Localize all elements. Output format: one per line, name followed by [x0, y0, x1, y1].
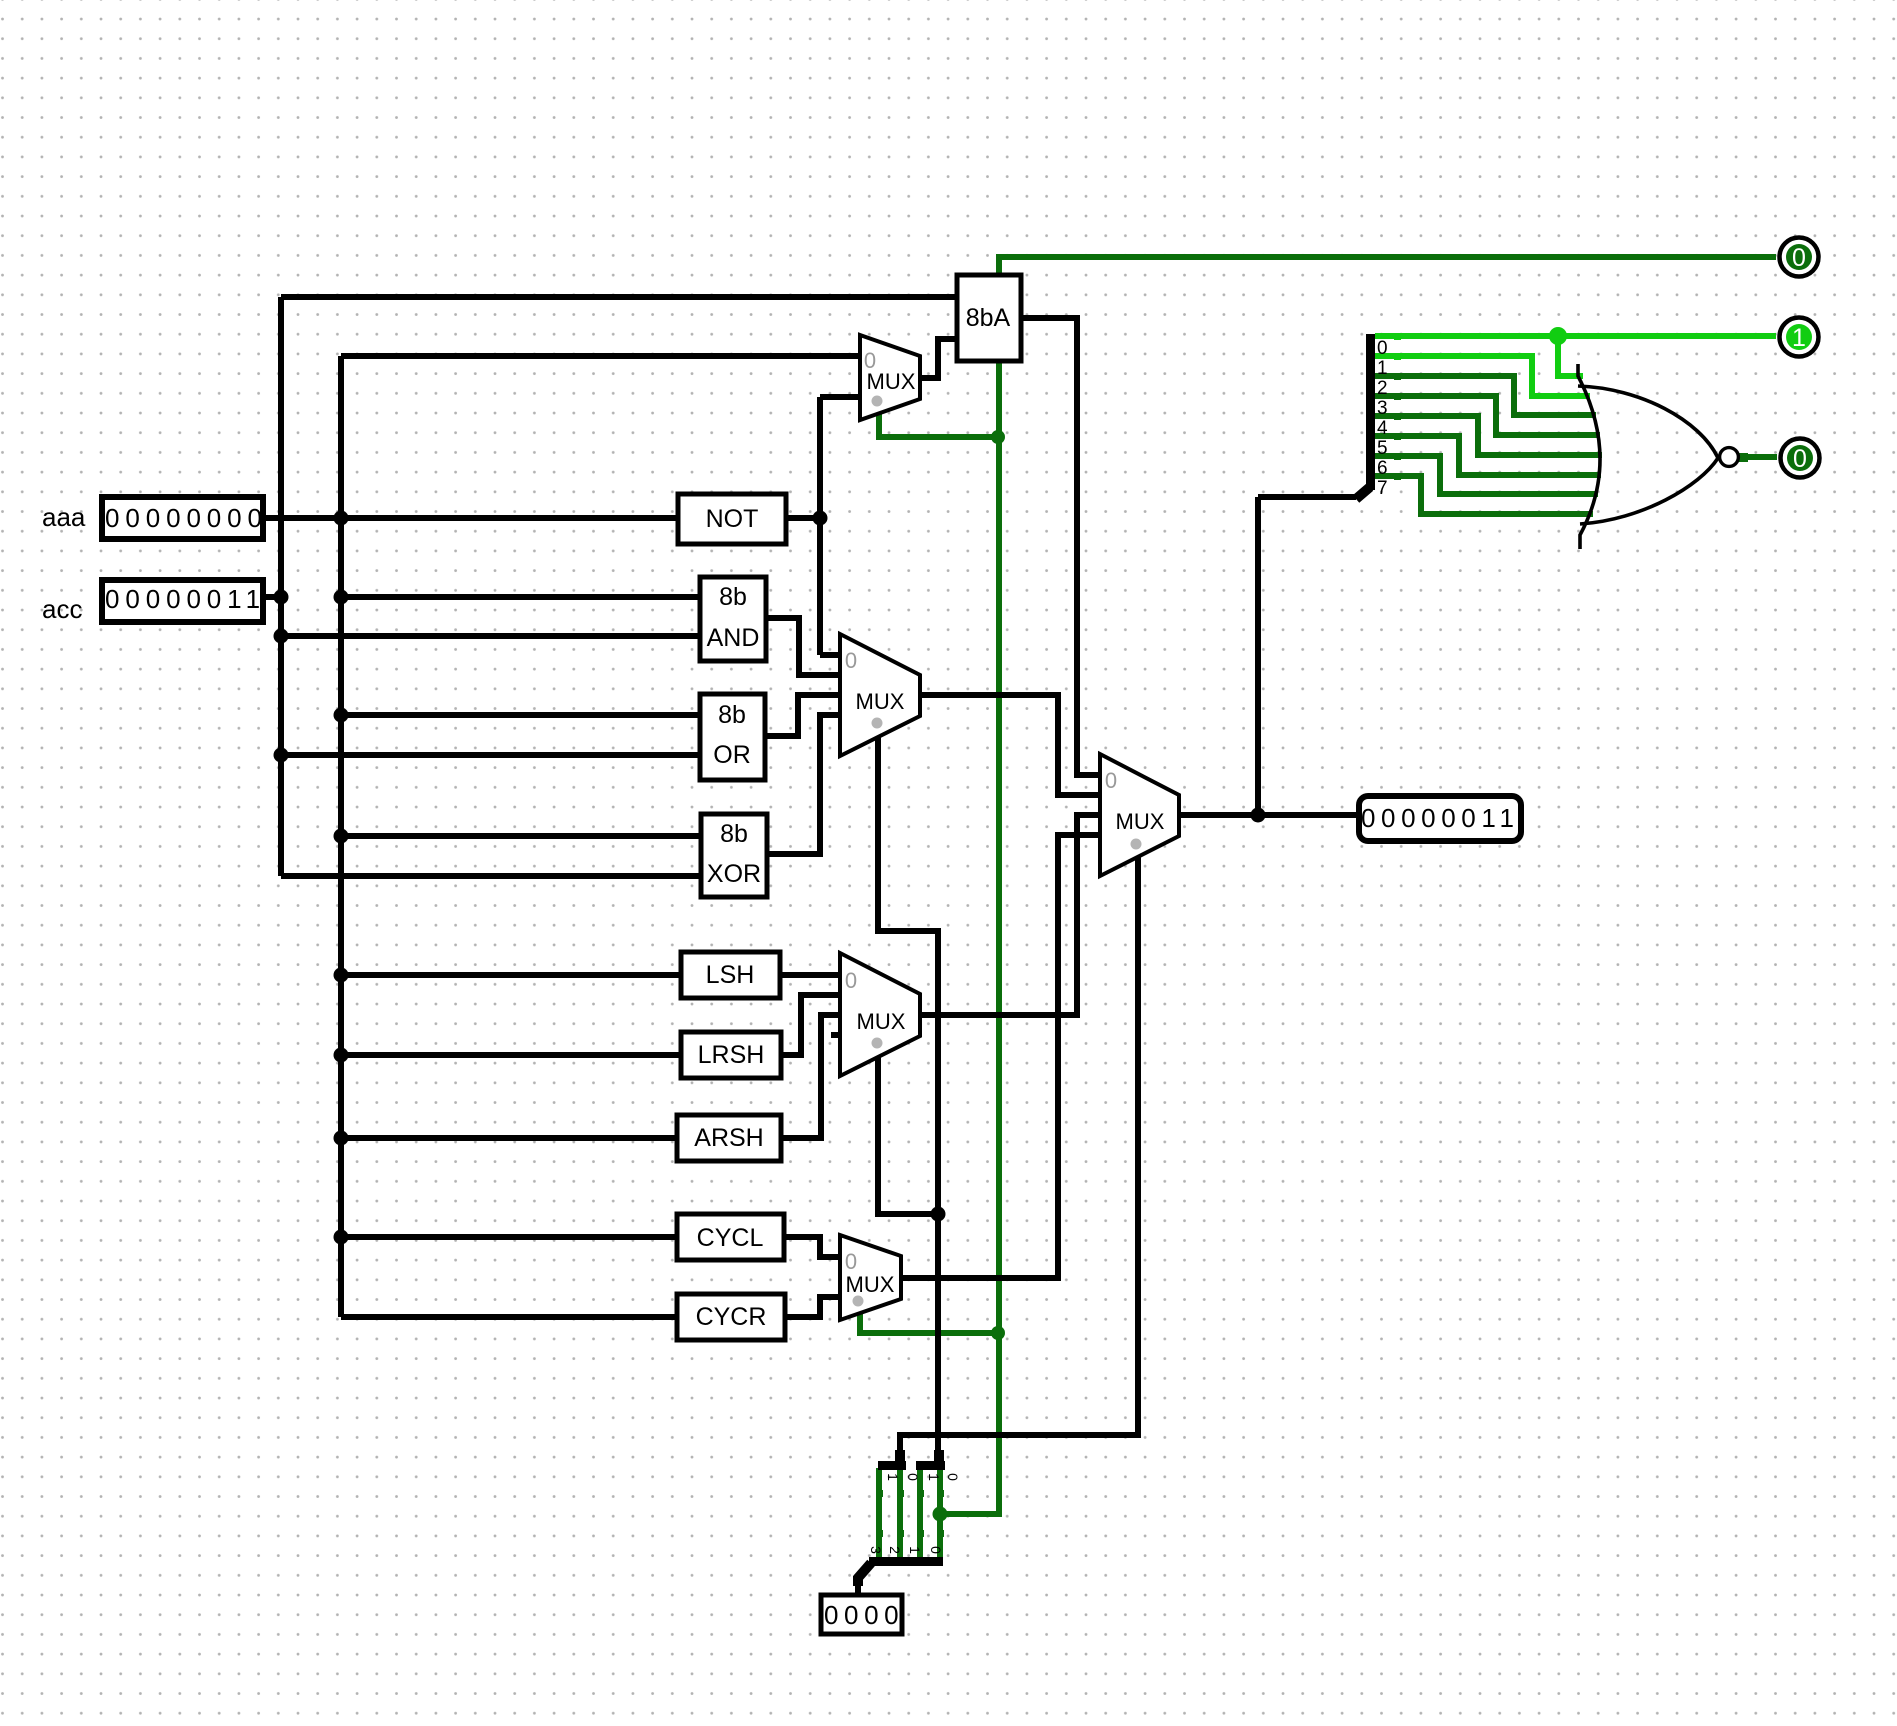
splitter 4-bit input stub: [853, 1576, 863, 1586]
junction MUX4 select green: [991, 1326, 1005, 1340]
svg-text:8b: 8b: [718, 701, 746, 729]
svg-text:OR: OR: [713, 741, 751, 769]
wire MUX1 select: [879, 408, 998, 437]
input register acc: [102, 580, 263, 622]
svg-text:XOR: XOR: [707, 860, 761, 888]
wire acc bus vertical x281: [278, 297, 284, 876]
wire MUX1 output to 8bA in2: [918, 339, 957, 378]
svg-text:2: 2: [1377, 378, 1388, 399]
svg-text:0000: 0000: [824, 1600, 904, 1630]
wire out bit2 to NOR in2: [1375, 376, 1596, 415]
svg-text:0: 0: [845, 968, 857, 993]
svg-text:LSH: LSH: [706, 961, 755, 989]
wire NOT to MUX2 in0: [820, 652, 840, 658]
wire CYCL input row: [341, 1234, 679, 1240]
splitter A bar: [878, 1461, 906, 1470]
splitter B input riser: [934, 1450, 944, 1462]
svg-text:MUX: MUX: [846, 1272, 895, 1297]
gate 8b AND: [700, 577, 766, 661]
gate NOT: [678, 494, 786, 544]
gate NOR bottom curve: [1580, 458, 1718, 524]
wire OR output elbow: [763, 695, 840, 736]
wire LRSH output elbow: [779, 995, 840, 1055]
wire MUX5 select: [900, 852, 1138, 1452]
wire MUX4 output to MUX5 in3: [899, 835, 1100, 1278]
output LED O1 (value 0) fill: [1786, 244, 1812, 270]
splitter A input riser: [895, 1450, 905, 1462]
node nub bit1: [1394, 353, 1401, 360]
block CYCL: [677, 1214, 784, 1260]
wire AND in2 row: [281, 633, 702, 639]
wire input splitter pin: [855, 1585, 861, 1597]
node nub select line: [937, 1530, 944, 1537]
node nub select line: [917, 1530, 924, 1537]
multiplexer MUX5: [1100, 754, 1179, 876]
svg-text:MUX: MUX: [857, 1009, 906, 1034]
wire out bit4 to NOR in4: [1375, 416, 1602, 455]
svg-text:6: 6: [1377, 458, 1388, 479]
wire MUX3 output to MUX5 in2: [918, 815, 1100, 1015]
wire out bit5 to NOR in5: [1375, 436, 1601, 475]
junction NOT output: [813, 511, 828, 526]
gate 8b XOR: [701, 814, 767, 897]
gate NOR back edge: [1578, 364, 1600, 549]
wire MUX2 select chain: [878, 730, 938, 1452]
svg-text:0: 0: [928, 1546, 944, 1554]
wire out bit3 to NOR in3: [1375, 396, 1600, 435]
wire XOR in2 row: [281, 873, 703, 879]
wire aaa bus vertical x341: [338, 356, 344, 1317]
multiplexer MUX3: [840, 953, 920, 1076]
wire ARSH output elbow: [779, 1015, 840, 1138]
block ARSH: [677, 1115, 781, 1161]
multiplexer MUX3 select indicator: [872, 1038, 883, 1049]
wire NOT net vertical x820: [817, 397, 823, 655]
block CYCR: [677, 1294, 785, 1340]
output LED O2 (value 1) ring: [1780, 318, 1819, 357]
junction XOR in1: [334, 829, 349, 844]
wire 8bA top pin to LED0 run: [999, 257, 1776, 288]
wire splitter bit s3 vertical: [876, 1468, 882, 1560]
wire out bit7 to NOR in7: [1375, 476, 1593, 514]
junction aaa-NOT row: [334, 511, 349, 526]
node nub bit7: [1394, 473, 1401, 480]
splitter 4-bit diagonal: [857, 1563, 871, 1579]
input 0000: [821, 1595, 902, 1634]
wire XOR output elbow: [765, 715, 840, 854]
wire acc bus top row to 8bA in1: [281, 294, 957, 300]
gate NOR top curve: [1578, 386, 1718, 458]
wire MUX4 select: [860, 1307, 998, 1333]
wire XOR in1 row: [341, 833, 703, 839]
wire OR in1 row: [341, 712, 702, 718]
wire splitter bit s1 vertical: [917, 1468, 923, 1560]
wire NOT output: [784, 515, 820, 521]
junction OR in2: [274, 748, 289, 763]
svg-text:0: 0: [1792, 244, 1806, 272]
wire aaa register to NOT input: [258, 515, 678, 521]
wire CYCR output elbow: [783, 1297, 840, 1317]
wire splitter bit s0 vertical: [937, 1468, 943, 1560]
junction select chain: [931, 1207, 946, 1222]
svg-text:1: 1: [885, 1473, 901, 1481]
svg-text:0: 0: [1377, 338, 1388, 359]
wire 8bA bottom pin vertical net: [941, 348, 999, 1514]
multiplexer MUX5 select indicator: [1131, 839, 1142, 850]
wire MUX5 output to out register: [1177, 812, 1360, 818]
splitter 4-bit bar: [869, 1557, 943, 1566]
junction acc stub: [274, 590, 289, 605]
svg-text:ARSH: ARSH: [694, 1124, 763, 1152]
wire result to splitter vertical: [1255, 497, 1261, 815]
node nub bit5: [1394, 433, 1401, 440]
node nub NOR out: [1739, 453, 1748, 462]
wire ARSH input row: [341, 1135, 679, 1141]
splitter 8-bit input diagonal: [1356, 487, 1370, 499]
output LED O1 (value 0) ring: [1780, 238, 1819, 277]
wire NOR output to LED2: [1738, 454, 1777, 460]
op-amp-shape MUX1 (multiplexer U1): [860, 335, 920, 420]
svg-text:CYCR: CYCR: [696, 1303, 767, 1331]
op-amp-shape MUX1 (multiplexer U1) select indicator: [872, 396, 883, 407]
multiplexer MUX4 select indicator: [853, 1296, 864, 1307]
node nub bit2: [1394, 373, 1401, 380]
junction LSH row: [334, 968, 349, 983]
junction MUX1 select green: [991, 430, 1005, 444]
output LED O3 (NOR result 0) ring: [1781, 439, 1820, 478]
node nub select line: [897, 1490, 904, 1497]
gate NOR bubble: [1720, 448, 1739, 467]
svg-text:7: 7: [1377, 478, 1388, 499]
node nub select line: [917, 1490, 924, 1497]
svg-text:0: 0: [845, 648, 857, 673]
multiplexer MUX2: [840, 634, 920, 756]
output register value: [1359, 796, 1521, 841]
wire MUX3 in3 stub: [831, 1032, 842, 1038]
wire CYCR input row: [341, 1314, 679, 1320]
wire splitter bit s2 vertical: [897, 1468, 903, 1560]
wire AND in1 row: [341, 594, 702, 600]
svg-text:MUX: MUX: [1116, 809, 1165, 834]
node nub select line: [897, 1530, 904, 1537]
node nub select line: [876, 1490, 883, 1497]
wire CYCL output elbow: [782, 1237, 840, 1257]
wire LSH output to MUX3 in0: [778, 972, 840, 978]
node nub select line: [876, 1530, 883, 1537]
output LED O3 (NOR result 0) fill: [1787, 445, 1813, 471]
svg-text:00000011: 00000011: [1361, 803, 1520, 833]
svg-text:acc: acc: [42, 594, 82, 624]
wire acc register stub: [258, 594, 281, 600]
multiplexer MUX4: [840, 1235, 901, 1320]
wire out bit0 bright to LED1: [1375, 333, 1776, 339]
wire MUX3 select: [878, 1053, 938, 1214]
junction CYCL row: [334, 1230, 349, 1245]
svg-text:CYCL: CYCL: [697, 1224, 764, 1252]
wire OR in2 row: [281, 752, 702, 758]
wire 8bA output to MUX5 in0: [1019, 318, 1100, 775]
junction AND in2: [274, 629, 289, 644]
node nub bit0: [1394, 333, 1401, 340]
svg-text:1: 1: [1377, 358, 1388, 379]
wire NOT to MUX1 in1: [820, 394, 860, 400]
junction OR in1: [334, 708, 349, 723]
svg-text:aaa: aaa: [42, 502, 86, 532]
svg-text:0: 0: [1105, 768, 1117, 793]
svg-text:MUX: MUX: [856, 689, 905, 714]
svg-text:0: 0: [1793, 445, 1807, 473]
junction splitter s0 green: [933, 1507, 948, 1522]
gate 8b OR: [700, 694, 765, 780]
svg-text:1: 1: [907, 1546, 923, 1554]
wire LRSH input row: [341, 1052, 683, 1058]
multiplexer MUX2 select indicator: [872, 718, 883, 729]
junction ARSH row: [334, 1131, 349, 1146]
input register aaa: [102, 497, 263, 539]
wire LSH input row: [341, 972, 683, 978]
svg-text:0: 0: [945, 1473, 961, 1481]
splitter B bar: [916, 1461, 945, 1470]
svg-text:3: 3: [868, 1546, 884, 1554]
wire AND output elbow: [764, 618, 840, 675]
splitter 8-bit bar: [1366, 334, 1375, 490]
svg-text:00000000: 00000000: [105, 503, 268, 533]
junction LRSH row: [334, 1048, 349, 1063]
wire result to splitter horizontal: [1258, 494, 1356, 500]
wire out bit6 to NOR in6: [1375, 456, 1598, 494]
svg-text:4: 4: [1377, 418, 1388, 439]
svg-text:5: 5: [1377, 438, 1388, 459]
svg-text:1: 1: [1792, 324, 1806, 352]
wire aaa bus row to MUX1 in0: [341, 353, 860, 359]
node nub bit3: [1394, 393, 1401, 400]
junction bit0 bright: [1549, 327, 1567, 345]
svg-text:MUX: MUX: [867, 369, 916, 394]
junction MUX5 out: [1251, 808, 1266, 823]
block LSH: [681, 952, 780, 998]
wire out bit1 to NOR in1: [1375, 356, 1590, 396]
block LRSH: [681, 1032, 781, 1078]
svg-text:1: 1: [926, 1473, 942, 1481]
wire MUX2 output to MUX5 in1: [918, 695, 1100, 795]
svg-text:2: 2: [887, 1546, 903, 1554]
svg-text:NOT: NOT: [706, 505, 759, 533]
svg-text:LRSH: LRSH: [698, 1041, 765, 1069]
svg-text:0: 0: [905, 1473, 921, 1481]
wire out bit0 branch to NOR in0: [1558, 336, 1583, 376]
svg-text:AND: AND: [707, 624, 760, 652]
node nub select line: [937, 1490, 944, 1497]
svg-text:00000011: 00000011: [105, 584, 266, 614]
subcircuit 8bA: [957, 275, 1021, 361]
svg-text:8b: 8b: [719, 583, 747, 611]
junction AND in1: [334, 590, 349, 605]
svg-text:8bA: 8bA: [966, 304, 1011, 332]
node nub bit4: [1394, 413, 1401, 420]
svg-text:3: 3: [1377, 398, 1388, 419]
svg-text:0: 0: [845, 1249, 857, 1274]
node nub bit6: [1394, 453, 1401, 460]
output LED O2 (value 1) fill: [1786, 324, 1812, 350]
svg-text:8b: 8b: [720, 820, 748, 848]
